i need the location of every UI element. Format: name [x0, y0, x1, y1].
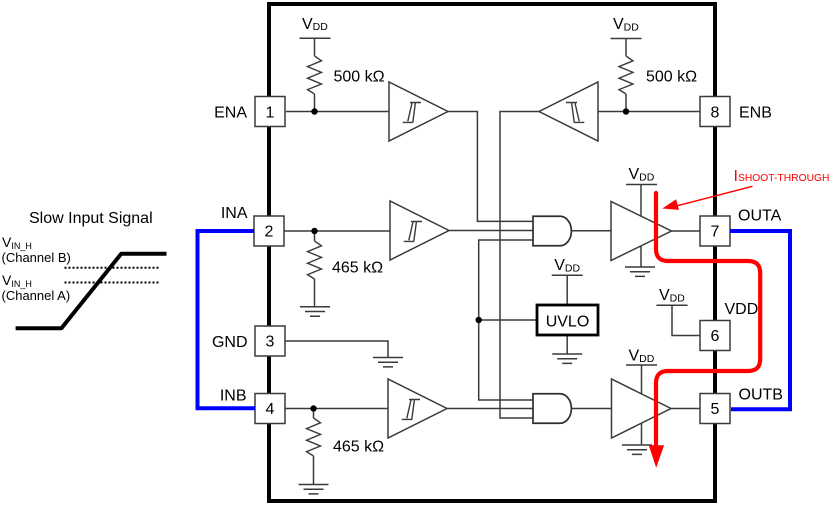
svg-text:INB: INB: [220, 388, 247, 405]
threshold dotted line Channel B: [65, 267, 161, 269]
svg-text:ENB: ENB: [739, 105, 772, 122]
wire VDD to UVLO: [566, 275, 568, 305]
blue wire OUTA-OUTB external loop: [730, 231, 790, 409]
wire driver A to pin7: [672, 230, 701, 232]
svg-text:465 kΩ: 465 kΩ: [332, 260, 383, 277]
wire UVLO output to node U: [479, 319, 537, 321]
annotation arrow line: [678, 186, 753, 205]
node INB: [310, 405, 316, 411]
wire VDD tap driver B: [641, 365, 643, 395]
ground R3: [300, 307, 330, 316]
pin 1 box: [255, 97, 285, 127]
wire driver B to pin5: [671, 408, 700, 410]
resistor R4 465k (INB pull-down): [307, 418, 321, 456]
svg-text:OUTA: OUTA: [738, 208, 782, 225]
wire VDD to pin6: [672, 305, 700, 335]
node UVLO: [476, 317, 482, 323]
node INA: [311, 228, 317, 234]
wire pin3 to ground: [285, 341, 388, 358]
svg-text:3: 3: [266, 334, 275, 351]
driver B (output buffer): [612, 379, 672, 438]
AND gate B: [533, 394, 571, 424]
ground UVLO: [552, 354, 582, 363]
wire schmitt B2 to AND B input2: [447, 408, 533, 410]
svg-text:500 kΩ: 500 kΩ: [334, 69, 385, 86]
VDD bar UVLO: [552, 274, 583, 276]
wire pin1 to schmitt A1: [286, 111, 389, 113]
svg-text:1: 1: [266, 105, 275, 122]
pin 8 box: [700, 97, 730, 127]
svg-text:(Channel B): (Channel B): [2, 250, 71, 265]
slow input ramp waveform: [16, 254, 167, 328]
wire pin4 to schmitt B2: [285, 408, 388, 410]
svg-text:2: 2: [265, 224, 274, 241]
pin 5 box: [700, 394, 730, 424]
driver A (output buffer): [611, 202, 672, 261]
wire R4 bottom to ground: [313, 456, 315, 485]
wire AND A to driver A: [571, 230, 611, 232]
wire ground tap driver A: [640, 246, 642, 267]
svg-text:ENA: ENA: [214, 105, 247, 122]
svg-text:8: 8: [711, 105, 720, 122]
resistor R1 500k (ENA pull-up): [308, 56, 322, 94]
schmitt trigger B1 (ENB, mirrored): [539, 82, 598, 141]
wire schmitt A2 to AND A input2: [449, 230, 533, 232]
svg-text:OUTB: OUTB: [739, 387, 783, 404]
wire UVLO bus to AND A input3 and AND B input1: [479, 240, 533, 400]
pin 4 box: [255, 394, 285, 424]
wire VDD to R2 top: [625, 39, 627, 57]
threshold dotted line Channel A: [65, 282, 161, 284]
svg-text:5: 5: [711, 401, 720, 418]
pin 6 box: [700, 321, 730, 351]
wire ENB bus to AND B input3: [500, 112, 539, 419]
VDD bar driver A: [626, 184, 657, 186]
svg-text:500 kΩ: 500 kΩ: [646, 69, 697, 86]
pin 2 box: [254, 216, 284, 246]
wire ENA bus to AND A input1: [448, 112, 533, 222]
wire VDD tap driver A: [640, 185, 642, 217]
schmitt trigger A2 (INA): [390, 201, 449, 260]
svg-text:7: 7: [711, 224, 720, 241]
svg-text:6: 6: [711, 328, 720, 345]
ground driver B: [622, 445, 652, 454]
pin 7 box: [700, 216, 730, 246]
svg-text:Slow Input Signal: Slow Input Signal: [29, 210, 153, 227]
ground driver A: [625, 267, 655, 276]
wire node B to R4 top: [313, 409, 315, 419]
annotation arrowhead: [662, 199, 679, 210]
pin 3 box: [255, 326, 285, 356]
svg-text:(Channel A): (Channel A): [2, 288, 71, 303]
ground pin3: [373, 358, 403, 367]
wire node A to R3 top: [314, 231, 316, 241]
svg-text:4: 4: [266, 401, 275, 418]
IC boundary: [269, 4, 715, 501]
wire pin2 to schmitt A2: [284, 230, 390, 232]
wire UVLO to ground: [566, 335, 568, 354]
wire ground tap driver B: [641, 423, 643, 445]
node ENB: [623, 108, 629, 114]
ground R4: [299, 485, 329, 494]
blue wire INA-INB external loop: [198, 231, 256, 408]
VDD bar pin6: [657, 304, 688, 306]
wire VDD to R1 top: [314, 38, 316, 56]
op-amp U1 UVLO block: [537, 305, 598, 335]
resistor R3 465k (INA pull-down): [308, 241, 322, 279]
svg-text:UVLO: UVLO: [546, 314, 590, 331]
shoot-through red current path: [656, 193, 760, 447]
wire R3 bottom to ground: [314, 279, 316, 307]
AND gate A: [533, 216, 571, 246]
VDD bar driver B: [626, 364, 657, 366]
wire R1 bottom to node: [314, 94, 316, 112]
svg-text:VDD: VDD: [725, 301, 759, 318]
shoot-through arrowhead: [649, 445, 664, 467]
resistor R2 500k (ENB pull-up): [619, 56, 633, 94]
VDD bar ENB pull-up: [611, 38, 642, 40]
wire AND B to driver B: [571, 408, 611, 410]
svg-text:INA: INA: [221, 205, 248, 222]
svg-text:465 kΩ: 465 kΩ: [333, 439, 384, 456]
svg-text:GND: GND: [212, 334, 248, 351]
node ENA: [311, 108, 317, 114]
wire R2 bottom to node: [625, 94, 627, 112]
schmitt trigger B2 (INB): [388, 379, 447, 438]
VDD bar ENA pull-up: [300, 37, 331, 39]
wire schmitt B1 to pin8: [598, 111, 700, 113]
schmitt trigger A1 (ENA): [389, 82, 448, 141]
